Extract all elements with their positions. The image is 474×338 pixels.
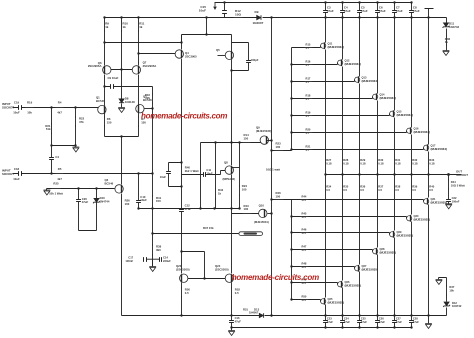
capacitor C21 100pF — [246, 61, 251, 63]
node zobel tap — [447, 173, 450, 176]
svg-text:C4: C4 — [55, 155, 59, 159]
node bus1 col4 — [376, 314, 378, 316]
wire q23 base link — [188, 278, 226, 280]
wire R11 col — [138, 18, 140, 66]
svg-text:(MJE15031): (MJE15031) — [254, 220, 269, 224]
svg-text:10uF: 10uF — [140, 198, 147, 202]
node y145 r — [74, 144, 76, 146]
svg-text:0.18: 0.18 — [412, 162, 418, 166]
wire miller line — [105, 86, 153, 88]
svg-text:0.5: 0.5 — [185, 291, 189, 295]
svg-text:R48: R48 — [302, 261, 307, 265]
wire column7 top tee — [425, 9, 434, 18]
wire y34 rail — [182, 35, 232, 43]
wire zobel — [448, 175, 450, 204]
node lower rail 2 — [290, 231, 292, 233]
node y208 d — [238, 207, 240, 209]
node obus col5 — [393, 173, 395, 175]
svg-text:1N4742: 1N4742 — [449, 25, 460, 29]
wire tail join — [105, 136, 139, 138]
transistor QL7 MJE15035 — [424, 199, 429, 204]
svg-text:C14: C14 — [163, 255, 168, 259]
svg-text:SOCKET: SOCKET — [2, 105, 14, 109]
svg-text:R47: R47 — [302, 244, 307, 248]
svg-text:4.7: 4.7 — [306, 97, 310, 101]
wire zener chain right top — [446, 18, 448, 51]
wire y142 line — [201, 142, 261, 144]
capacitor C4 leads — [342, 3, 344, 18]
node bus-R10 — [120, 16, 122, 18]
zener D12 1N4742 — [444, 302, 449, 306]
svg-text:4.7: 4.7 — [306, 131, 310, 135]
node obus col1 — [324, 173, 326, 175]
wire nfb gnd stem — [152, 260, 154, 267]
node +V arrow at top — [214, 3, 216, 7]
svg-text:R44: R44 — [302, 194, 307, 198]
svg-text:D9: D9 — [255, 10, 259, 14]
svg-text:10Ω 5 Watt: 10Ω 5 Watt — [451, 184, 465, 188]
svg-text:SOCKET: SOCKET — [2, 172, 14, 176]
svg-text:0.5: 0.5 — [326, 188, 330, 192]
node nfb bottom — [146, 258, 159, 260]
node R11 branch — [137, 52, 139, 54]
svg-text:R32: R32 — [412, 158, 417, 162]
svg-text:C18: C18 — [14, 167, 20, 171]
svg-text:1N4007: 1N4007 — [253, 21, 264, 25]
node bus2 col3 — [376, 326, 378, 328]
svg-text:(MJE15034): (MJE15034) — [328, 45, 345, 49]
node c10 bot — [137, 207, 139, 209]
wire QA-QB base line — [111, 69, 133, 71]
node x271 199 — [270, 198, 272, 200]
svg-text:10k: 10k — [449, 289, 454, 293]
wire Q1 emitter — [104, 114, 106, 137]
transistor QL6 MJE15035 — [407, 216, 412, 221]
node y208 c — [230, 207, 232, 209]
svg-text:0.5: 0.5 — [412, 188, 416, 192]
wire x239 drop — [239, 143, 241, 209]
wire column 7 — [428, 18, 430, 316]
svg-text:(2SC5200): (2SC5200) — [176, 268, 190, 272]
svg-text:(MJE15035): (MJE15035) — [345, 284, 362, 288]
wire y208 line — [139, 208, 240, 210]
resistor R41 150 — [152, 196, 154, 207]
svg-text:0.5: 0.5 — [395, 188, 399, 192]
svg-text:C27: C27 — [396, 316, 401, 320]
wire Q4 collector — [181, 35, 183, 50]
wire gnd bus2 stem — [231, 328, 233, 331]
node bias d10 — [95, 187, 97, 189]
node y142 c — [238, 141, 240, 143]
svg-text:(MJE15034): (MJE15034) — [431, 147, 448, 151]
resistor R43 100 — [242, 213, 253, 215]
svg-text:47uF: 47uF — [361, 9, 368, 13]
capacitor C26 47uF — [375, 321, 380, 323]
svg-text:R44: R44 — [451, 180, 456, 184]
capacitor C23 47uF — [323, 321, 328, 323]
svg-text:(MJE15035): (MJE15035) — [414, 218, 431, 222]
wire q8 base path — [182, 171, 226, 175]
node bus2 col5 — [410, 326, 412, 328]
svg-text:1N4148: 1N4148 — [125, 100, 135, 104]
svg-text:R4: R4 — [58, 100, 62, 104]
svg-text:R40: R40 — [429, 184, 434, 188]
capacitor C5 47uF — [357, 11, 362, 13]
diode D8 1N4148 — [119, 99, 124, 103]
diode D13 1N4007 — [259, 313, 263, 318]
wire upper rung 5 — [292, 131, 407, 133]
node nfb y208 — [151, 207, 153, 209]
svg-text:4.7: 4.7 — [306, 148, 310, 152]
node lower rail 6 — [290, 298, 292, 300]
wire drive down — [181, 252, 183, 274]
wire Q5 collector — [231, 43, 233, 52]
transistor Q23 2SC5200 — [180, 274, 188, 282]
transistor QU3 2SC5200 — [355, 77, 360, 82]
resistor R38 390 — [152, 245, 154, 256]
svg-text:R38: R38 — [395, 184, 400, 188]
resistor upper rung 6 4.7 — [304, 149, 314, 151]
svg-text:100nF: 100nF — [452, 199, 460, 203]
transistor Q5 VAS — [225, 51, 233, 59]
svg-text:(MJE15035): (MJE15035) — [431, 201, 448, 205]
svg-text:(MJE15030): (MJE15030) — [256, 129, 271, 133]
transistor QL1 MJE15035 — [321, 299, 326, 304]
svg-text:(2SC5200): (2SC5200) — [215, 268, 229, 272]
capacitor C6 47uF — [375, 11, 380, 13]
wire Q8 stub — [232, 167, 240, 169]
ground right top — [443, 51, 450, 56]
svg-text:BC546: BC546 — [96, 99, 105, 103]
resistor R46 100 — [274, 199, 285, 201]
svg-text:R5: R5 — [58, 167, 62, 171]
wire feedback R37 line — [153, 233, 239, 235]
node upper rail 4 — [290, 114, 292, 116]
node bus-col4 — [393, 16, 395, 18]
wire q10 base — [232, 213, 259, 215]
transistor QU6 2SC5200 — [407, 128, 412, 133]
node obus col4 — [376, 173, 378, 175]
svg-text:390: 390 — [156, 248, 161, 252]
wire vas to q24 — [231, 175, 233, 274]
wire bottom bus2 — [232, 327, 412, 329]
wire q9 emitter link — [272, 150, 292, 152]
svg-text:470: 470 — [302, 248, 307, 252]
resistor R22 47k — [75, 117, 77, 127]
wire col7 gnd stem — [428, 316, 430, 324]
svg-text:100: 100 — [276, 145, 281, 149]
svg-text:1N4742: 1N4742 — [452, 304, 462, 308]
svg-text:(MJE15035): (MJE15035) — [362, 268, 379, 272]
capacitor C10 leads — [138, 174, 140, 209]
wire Q4 emitter long — [181, 59, 183, 163]
wire gnd stub — [75, 146, 77, 147]
wire input1 — [13, 107, 99, 109]
node bus2 col1 — [341, 326, 343, 328]
svg-text:100pF: 100pF — [251, 58, 259, 62]
node y208 b — [213, 207, 215, 209]
node upper rail 2 — [290, 80, 292, 82]
wire Q3 emitter — [121, 194, 123, 316]
svg-text:C9 10uF: C9 10uF — [108, 76, 119, 80]
node rail-C7 — [393, 1, 395, 3]
node bus1 col1 — [324, 314, 326, 316]
svg-text:47uF: 47uF — [396, 9, 403, 13]
svg-text:(MJE15034): (MJE15034) — [397, 113, 414, 117]
svg-text:R15: R15 — [306, 42, 311, 46]
node base join — [120, 68, 122, 70]
svg-text:47uF: 47uF — [344, 9, 351, 13]
transistor QU7 2SC5200 — [424, 145, 429, 150]
svg-text:R37 15k: R37 15k — [203, 226, 214, 230]
capacitor C4 47uF — [340, 11, 345, 13]
svg-text:47uF: 47uF — [327, 320, 333, 324]
svg-text:470: 470 — [302, 265, 307, 269]
capacitor C27 47uF — [392, 321, 397, 323]
wire column 1 — [325, 18, 327, 316]
svg-text:0.18: 0.18 — [326, 162, 332, 166]
resistor upper rung 2 4.7 — [304, 81, 314, 83]
capacitor C8 47uF — [409, 11, 414, 13]
capacitor C20 leads — [78, 189, 80, 231]
svg-text:BC546: BC546 — [105, 181, 114, 185]
svg-text:C24: C24 — [344, 316, 349, 320]
node c10 top — [137, 172, 139, 174]
resistor R6 150 — [104, 117, 106, 127]
svg-text:0.18: 0.18 — [378, 162, 384, 166]
wire upper rung 1 — [292, 63, 338, 65]
wire loop r inline — [181, 163, 183, 187]
svg-text:150: 150 — [156, 199, 161, 203]
svg-text:150: 150 — [107, 121, 112, 125]
resistor R50 0.5 — [181, 288, 183, 298]
wire lower rung 4 — [292, 267, 355, 269]
resistor R44 10ohm 5W — [448, 180, 450, 190]
svg-text:47k: 47k — [79, 120, 84, 124]
svg-text:(MJE15035): (MJE15035) — [397, 234, 414, 238]
wire drive to base bridge — [182, 252, 205, 279]
svg-text:R34: R34 — [326, 184, 331, 188]
svg-text:47uF: 47uF — [379, 320, 385, 324]
wire R22 drop — [75, 108, 77, 146]
node tail — [120, 135, 122, 137]
svg-text:470: 470 — [302, 298, 307, 302]
node in2 nfb — [151, 172, 153, 174]
capacitor C6 leads — [377, 3, 379, 18]
transistor QL5 MJE15035 — [390, 232, 395, 237]
node bus1 col2 — [341, 314, 343, 316]
transistor Q3 BC546 — [115, 185, 123, 193]
wire output bus — [326, 174, 462, 176]
svg-text:C23: C23 — [327, 316, 332, 320]
transistor QL2 MJE15035 — [338, 282, 343, 287]
ground bias row — [44, 190, 51, 195]
node loop top — [180, 161, 182, 163]
capacitor C4 leads — [51, 146, 53, 174]
wire bias bottom — [79, 230, 97, 232]
svg-text:470: 470 — [302, 215, 307, 219]
node bus-col2 — [358, 16, 360, 18]
node upper rail 5 — [290, 131, 292, 133]
wire Q4 emitter low — [181, 187, 183, 252]
wire input2 — [13, 173, 153, 175]
node bus2 col4 — [393, 326, 395, 328]
svg-text:D12: D12 — [452, 301, 457, 305]
ground nfb — [149, 267, 156, 272]
svg-text:220uF: 220uF — [163, 259, 171, 263]
capacitor C15 — [222, 11, 227, 14]
svg-text:C17: C17 — [128, 255, 133, 259]
transistor Q7 2SC2905 — [132, 66, 140, 74]
svg-text:0.18: 0.18 — [429, 162, 435, 166]
capacitor C28 leads — [411, 316, 413, 328]
svg-text:R27: R27 — [326, 158, 331, 162]
wire R10 col — [121, 18, 123, 70]
node rail-C6 — [376, 1, 378, 3]
zener D11 1N4742 — [443, 23, 448, 27]
svg-text:C25: C25 — [361, 316, 366, 320]
capacitor C9 10uF — [111, 84, 114, 89]
svg-text:R50: R50 — [302, 294, 307, 298]
node in1 a — [50, 106, 52, 108]
svg-text:R51: R51 — [243, 308, 248, 312]
wire lower rung 6 — [292, 300, 321, 302]
wire bottom right chain — [439, 278, 447, 316]
svg-text:R20: R20 — [306, 127, 311, 131]
node x271 bus1 — [270, 314, 272, 316]
node bus1 col3 — [358, 314, 360, 316]
node miller tap — [103, 85, 105, 87]
svg-text:1k: 1k — [123, 25, 127, 29]
node rail-C3 — [324, 1, 326, 3]
ground diode D8 — [118, 108, 125, 113]
wire VAS box — [232, 35, 249, 71]
capacitor C22 100nF — [446, 200, 451, 202]
transistor Q10 MJE15031 — [259, 209, 267, 217]
svg-text:47uF: 47uF — [235, 320, 242, 324]
node q9 col — [270, 139, 272, 141]
wire Q2 base to nfb — [145, 108, 153, 110]
svg-text:1k: 1k — [105, 25, 109, 29]
capacitor C18 10uF — [19, 171, 22, 176]
capacitor C25 leads — [359, 316, 361, 328]
svg-text:100: 100 — [242, 188, 247, 192]
node upper rail 6 — [290, 148, 292, 150]
wire lower rung 1 — [292, 217, 407, 219]
svg-text:470: 470 — [302, 231, 307, 235]
capacitor C25 47uF — [357, 321, 362, 323]
svg-text:1N4007: 1N4007 — [249, 310, 259, 314]
node bus-col1 — [341, 16, 343, 18]
svg-text:100: 100 — [244, 207, 249, 211]
capacitor C23 leads — [325, 316, 327, 328]
capacitor C17 100nF — [144, 257, 147, 262]
wire main top bus — [105, 17, 447, 19]
wire x200 drop — [200, 143, 202, 209]
diode D9 1N4007 — [257, 15, 261, 20]
svg-text:(MJE15034): (MJE15034) — [362, 79, 379, 83]
wire lower rung 5 — [292, 283, 338, 285]
transistor Q1 BC546 — [98, 105, 106, 113]
wire column 6 — [411, 18, 413, 316]
resistor R10 — [121, 21, 123, 32]
svg-text:10k: 10k — [27, 111, 32, 115]
wire upper rung 0 — [292, 46, 321, 48]
svg-text:Q10: Q10 — [259, 204, 265, 208]
capacitor C13 10uF — [166, 172, 171, 174]
capacitor C3 47uF — [323, 11, 328, 13]
resistor R40 2k2 — [181, 167, 183, 178]
resistor R52 0.5 — [231, 288, 233, 298]
node rail-C5 — [358, 1, 360, 3]
resistor upper rung 4 4.7 — [304, 115, 314, 117]
svg-text:10Ω 1 watt: 10Ω 1 watt — [266, 168, 280, 172]
node rail-C8 — [410, 1, 412, 3]
resistor R14 150 — [242, 142, 252, 144]
node bus1 col6 — [410, 314, 412, 316]
wire QB emitter down — [138, 75, 140, 105]
resistor upper rung 5 4.7 — [304, 132, 314, 134]
node bus-col0 — [324, 16, 326, 18]
svg-text:R18: R18 — [306, 93, 311, 97]
resistor R11 — [138, 21, 140, 32]
svg-text:1k: 1k — [139, 25, 143, 29]
svg-text:10uF: 10uF — [160, 175, 167, 179]
wire main vertical x271 — [271, 18, 273, 317]
svg-text:100nF: 100nF — [125, 259, 133, 263]
zener D10 leads — [96, 189, 98, 231]
wire q23 emitter — [181, 283, 183, 316]
svg-text:0.18: 0.18 — [343, 162, 349, 166]
svg-text:150: 150 — [244, 136, 249, 140]
capacitor C28 47uF — [409, 321, 414, 323]
wire top rail — [215, 2, 412, 4]
resistor R12 on bus — [233, 17, 244, 19]
svg-text:R46: R46 — [302, 227, 307, 231]
transistor Q2 BC546 — [136, 105, 144, 113]
inductor L1 — [239, 232, 263, 236]
resistor R19 10k — [25, 107, 35, 109]
node drive split — [180, 250, 182, 252]
node vas bottom — [230, 69, 232, 71]
node lower rail 3 — [290, 248, 292, 250]
svg-text:100: 100 — [125, 202, 130, 206]
resistor lower rung 1 470 — [300, 216, 310, 218]
svg-text:R36: R36 — [360, 184, 365, 188]
svg-text:10uF: 10uF — [206, 172, 213, 176]
node bus1 col7 — [427, 314, 429, 316]
capacitor C3 leads — [325, 3, 327, 18]
node bus-col3 — [376, 16, 378, 18]
wire vas mid down — [231, 143, 233, 166]
svg-text:R45: R45 — [302, 211, 307, 215]
capacitor C10 10uF — [136, 201, 141, 203]
capacitor C26 leads — [377, 316, 379, 328]
wire column 5 — [394, 18, 396, 316]
svg-text:4k7: 4k7 — [57, 111, 62, 115]
svg-text:150: 150 — [141, 121, 146, 125]
svg-text:0.5: 0.5 — [429, 188, 433, 192]
svg-text:51k: 51k — [46, 127, 51, 131]
ground bottom mid — [228, 331, 235, 336]
wire upper ladder rail — [291, 48, 293, 150]
svg-text:R28: R28 — [343, 158, 348, 162]
wire R9 col — [104, 18, 106, 66]
node nfb base — [151, 107, 153, 109]
capacitor C16 47uF — [229, 321, 234, 323]
capacitor C4 — [49, 158, 54, 160]
wire q10 emitter link — [272, 199, 292, 201]
